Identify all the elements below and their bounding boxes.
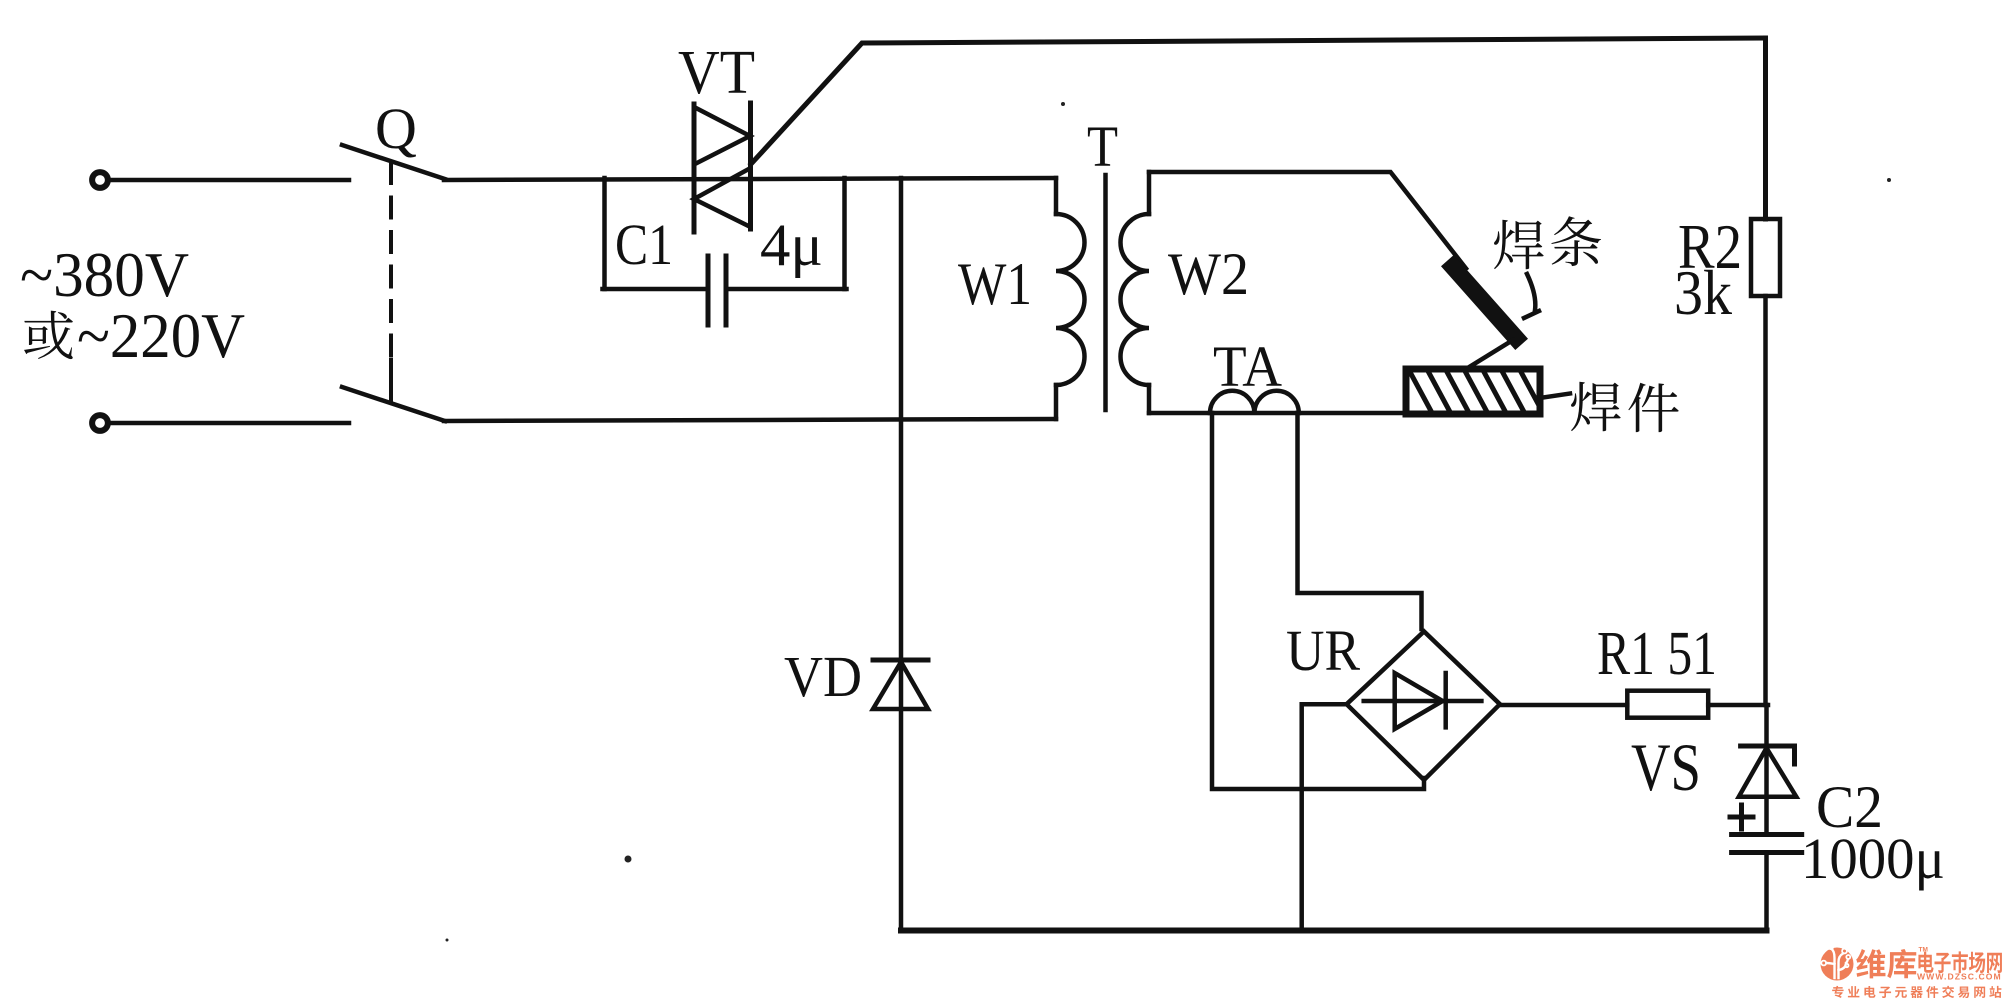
svg-text:R1 51: R1 51 (1597, 620, 1717, 688)
wire bottom bus (901, 928, 1767, 934)
wire upper input lead (110, 178, 349, 183)
watermark 维库 (1856, 949, 1916, 978)
current transformer TA coil (1210, 391, 1299, 413)
pointer from 焊条 to electrode (1524, 274, 1539, 318)
switch Q linkage dashed (389, 163, 393, 402)
label 焊条 electrode (1494, 216, 1601, 269)
wire lower input lead (110, 421, 349, 426)
diode VD (873, 660, 928, 709)
transformer W2 secondary winding (1121, 172, 1150, 413)
workpiece 焊件 hatched block (1406, 369, 1542, 414)
capacitor C2 polarity plus (1730, 805, 1753, 829)
svg-text:3k: 3k (1674, 257, 1732, 328)
wire C1 box left edge (602, 178, 607, 289)
svg-text:4μ: 4μ (760, 212, 823, 278)
wire C1 box right edge (842, 178, 847, 289)
wire TA right lead to bridge top (1298, 413, 1422, 629)
watermark 电子市场网 (1918, 951, 2001, 973)
wire right bus top (1763, 38, 1768, 219)
wire electrode tip to workpiece (1466, 340, 1513, 369)
wire R1 to right bus (1708, 703, 1768, 708)
svg-text:~220V: ~220V (77, 300, 245, 371)
wire bridge right corner to R1 (1500, 703, 1627, 708)
label 或~220V source voltage (24, 300, 245, 371)
terminal lower input (92, 415, 108, 431)
capacitor C2 plates (1732, 835, 1802, 853)
resistor R1 body (1627, 691, 1708, 718)
watermark logo circle (1821, 944, 2002, 998)
svg-text:W1: W1 (958, 251, 1032, 317)
svg-text:TM: TM (1919, 947, 1928, 954)
svg-text:VT: VT (678, 39, 755, 107)
wire switch bottom to W1 bottom (444, 419, 1056, 421)
wire right bus to VS (1764, 705, 1769, 835)
svg-text:Q: Q (375, 96, 417, 161)
wire TA left lead to bridge bottom (1212, 413, 1424, 789)
wire C1 box bottom left (603, 287, 709, 292)
wire right bus middle (1763, 296, 1768, 705)
capacitor C1 plates (708, 256, 726, 325)
switch Q lower blade (342, 387, 445, 421)
pointer from workpiece to 焊件 label (1540, 394, 1570, 399)
bridge internal diode (1364, 673, 1482, 729)
resistor R2 body (1751, 219, 1780, 296)
svg-text:C1: C1 (615, 212, 673, 277)
svg-text:W2: W2 (1168, 241, 1249, 307)
triac VT (694, 103, 751, 232)
wire C1 box bottom right (726, 287, 847, 292)
label 焊件 workpiece (1571, 382, 1679, 432)
transformer W1 primary winding (1056, 178, 1085, 419)
watermark slogan 专业电子元器件交易网站 (1832, 986, 2001, 998)
wire VD branch vertical (899, 178, 904, 930)
wire bridge left corner to bottom bus (1302, 704, 1347, 930)
wire W2 bottom to workpiece (1149, 411, 1539, 416)
terminal upper input (92, 172, 108, 188)
wire C2 to bottom bus (1764, 853, 1769, 931)
electrode holder bar (welding rod) (1453, 267, 1516, 338)
bridge rectifier UR diamond (1347, 631, 1500, 780)
transformer core (1103, 175, 1108, 410)
svg-text:UR: UR (1286, 618, 1360, 683)
svg-text:WWW.DZSC.COM: WWW.DZSC.COM (1917, 972, 2002, 982)
wire triac gate to top bus (751, 38, 1766, 164)
svg-text:1000μ: 1000μ (1801, 826, 1945, 891)
switch Q upper blade (342, 145, 445, 179)
svg-text:VD: VD (784, 644, 862, 709)
svg-text:T: T (1087, 114, 1118, 179)
svg-text:TA: TA (1213, 334, 1282, 399)
zener diode VS (1739, 746, 1797, 797)
wire switch to W1 top (444, 178, 1056, 180)
wire W2 top to electrode (1149, 172, 1466, 269)
svg-text:VS: VS (1631, 729, 1701, 805)
speckle dots (446, 102, 1892, 942)
